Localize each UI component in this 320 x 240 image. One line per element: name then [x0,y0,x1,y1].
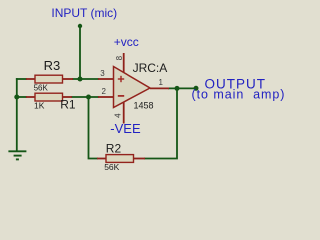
svg-text:(to main amp): (to main amp) [192,87,286,101]
svg-text:56K: 56K [104,162,119,172]
svg-text:1K: 1K [34,100,45,110]
svg-text:4: 4 [113,113,122,118]
svg-text:1: 1 [159,78,164,87]
svg-text:8: 8 [115,55,124,60]
svg-text:R1: R1 [60,97,76,111]
svg-text:INPUT (mic): INPUT (mic) [51,6,117,20]
svg-text:1458: 1458 [134,100,154,110]
svg-text:-VEE: -VEE [110,121,141,136]
svg-text:3: 3 [100,69,105,78]
svg-text:R3: R3 [44,58,61,73]
svg-text:+vcc: +vcc [114,35,139,49]
svg-text:JRC:A: JRC:A [133,61,168,75]
svg-text:56K: 56K [34,83,49,92]
svg-text:R2: R2 [106,141,122,155]
svg-text:2: 2 [102,87,107,96]
